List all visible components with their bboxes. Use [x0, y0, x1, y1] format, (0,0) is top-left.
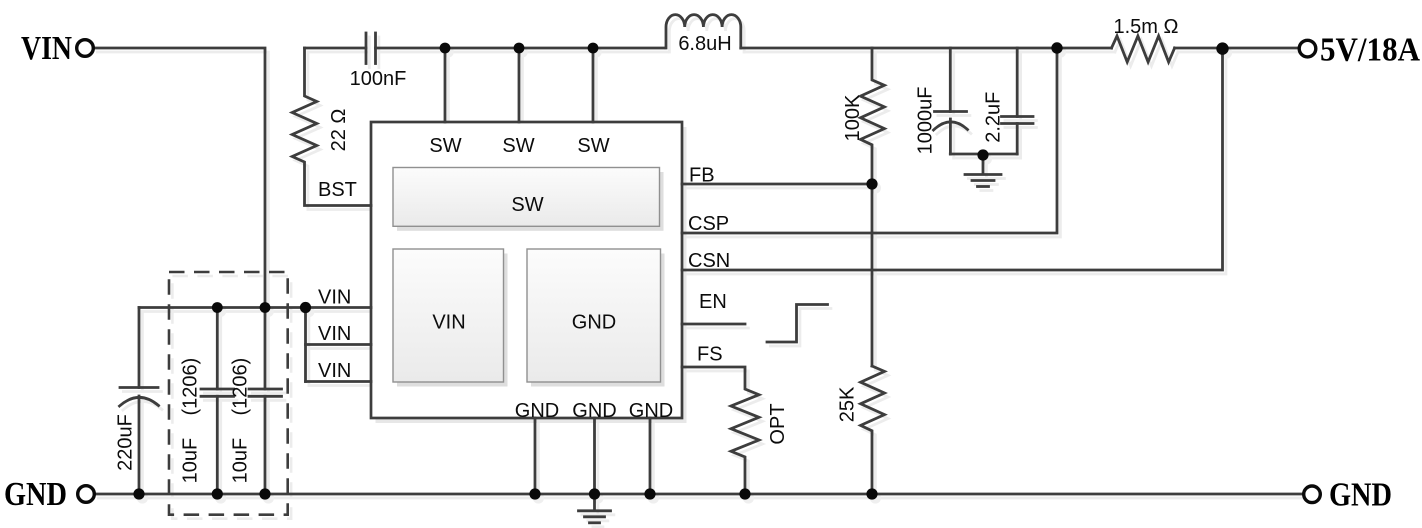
- IC inner pad SW: [393, 168, 660, 227]
- svg-text:GND: GND: [572, 312, 616, 334]
- svg-text:1000uF: 1000uF: [915, 87, 937, 155]
- svg-text:100K: 100K: [842, 94, 864, 141]
- svg-text:FS: FS: [697, 344, 723, 366]
- IC U1 body: [371, 122, 682, 418]
- IC inner pad SW shadow: [397, 172, 664, 231]
- svg-text:SW: SW: [511, 194, 543, 216]
- svg-text:BST: BST: [318, 179, 357, 201]
- terminal GND right: [1304, 486, 1321, 503]
- svg-text:CSN: CSN: [688, 250, 730, 272]
- svg-text:1.5m Ω: 1.5m Ω: [1114, 16, 1179, 38]
- svg-text:GND: GND: [572, 400, 616, 422]
- svg-text:220uF: 220uF: [115, 414, 137, 471]
- svg-text:VIN: VIN: [318, 323, 351, 345]
- svg-text:GND: GND: [4, 476, 67, 513]
- svg-text:SW: SW: [429, 135, 461, 157]
- svg-text:10uF (1206): 10uF (1206): [230, 358, 252, 484]
- svg-text:OPT: OPT: [767, 403, 789, 444]
- svg-text:GND: GND: [1329, 477, 1392, 514]
- svg-text:EN: EN: [699, 291, 727, 313]
- svg-text:GND: GND: [629, 400, 673, 422]
- IC inner pad VIN: [393, 249, 504, 382]
- svg-text:5V/18A: 5V/18A: [1320, 32, 1420, 69]
- svg-text:10uF (1206): 10uF (1206): [180, 358, 202, 484]
- op-amp U1 outer IC body shadow: [376, 127, 687, 423]
- svg-text:FB: FB: [689, 165, 715, 187]
- IC inner pad VIN shadow: [397, 254, 508, 387]
- svg-text:SW: SW: [577, 135, 609, 157]
- svg-text:100nF: 100nF: [350, 68, 407, 90]
- svg-text:VIN: VIN: [318, 360, 351, 382]
- terminal 5V/18A: [1299, 40, 1316, 57]
- IC inner pad GND: [527, 249, 661, 382]
- dashed box for input MLCC caps: [169, 272, 288, 515]
- svg-text:VIN: VIN: [21, 30, 72, 67]
- svg-text:6.8uH: 6.8uH: [678, 33, 731, 55]
- svg-text:SW: SW: [502, 135, 534, 157]
- svg-text:VIN: VIN: [432, 312, 465, 334]
- svg-text:CSP: CSP: [688, 213, 729, 235]
- svg-text:22 Ω: 22 Ω: [328, 109, 350, 152]
- terminal GND left: [78, 486, 95, 503]
- IC inner pad GND shadow: [531, 254, 665, 387]
- svg-text:25K: 25K: [837, 386, 859, 422]
- svg-text:GND: GND: [515, 400, 559, 422]
- terminal VIN: [77, 40, 94, 57]
- svg-text:VIN: VIN: [318, 287, 351, 309]
- svg-text:2.2uF: 2.2uF: [983, 92, 1005, 143]
